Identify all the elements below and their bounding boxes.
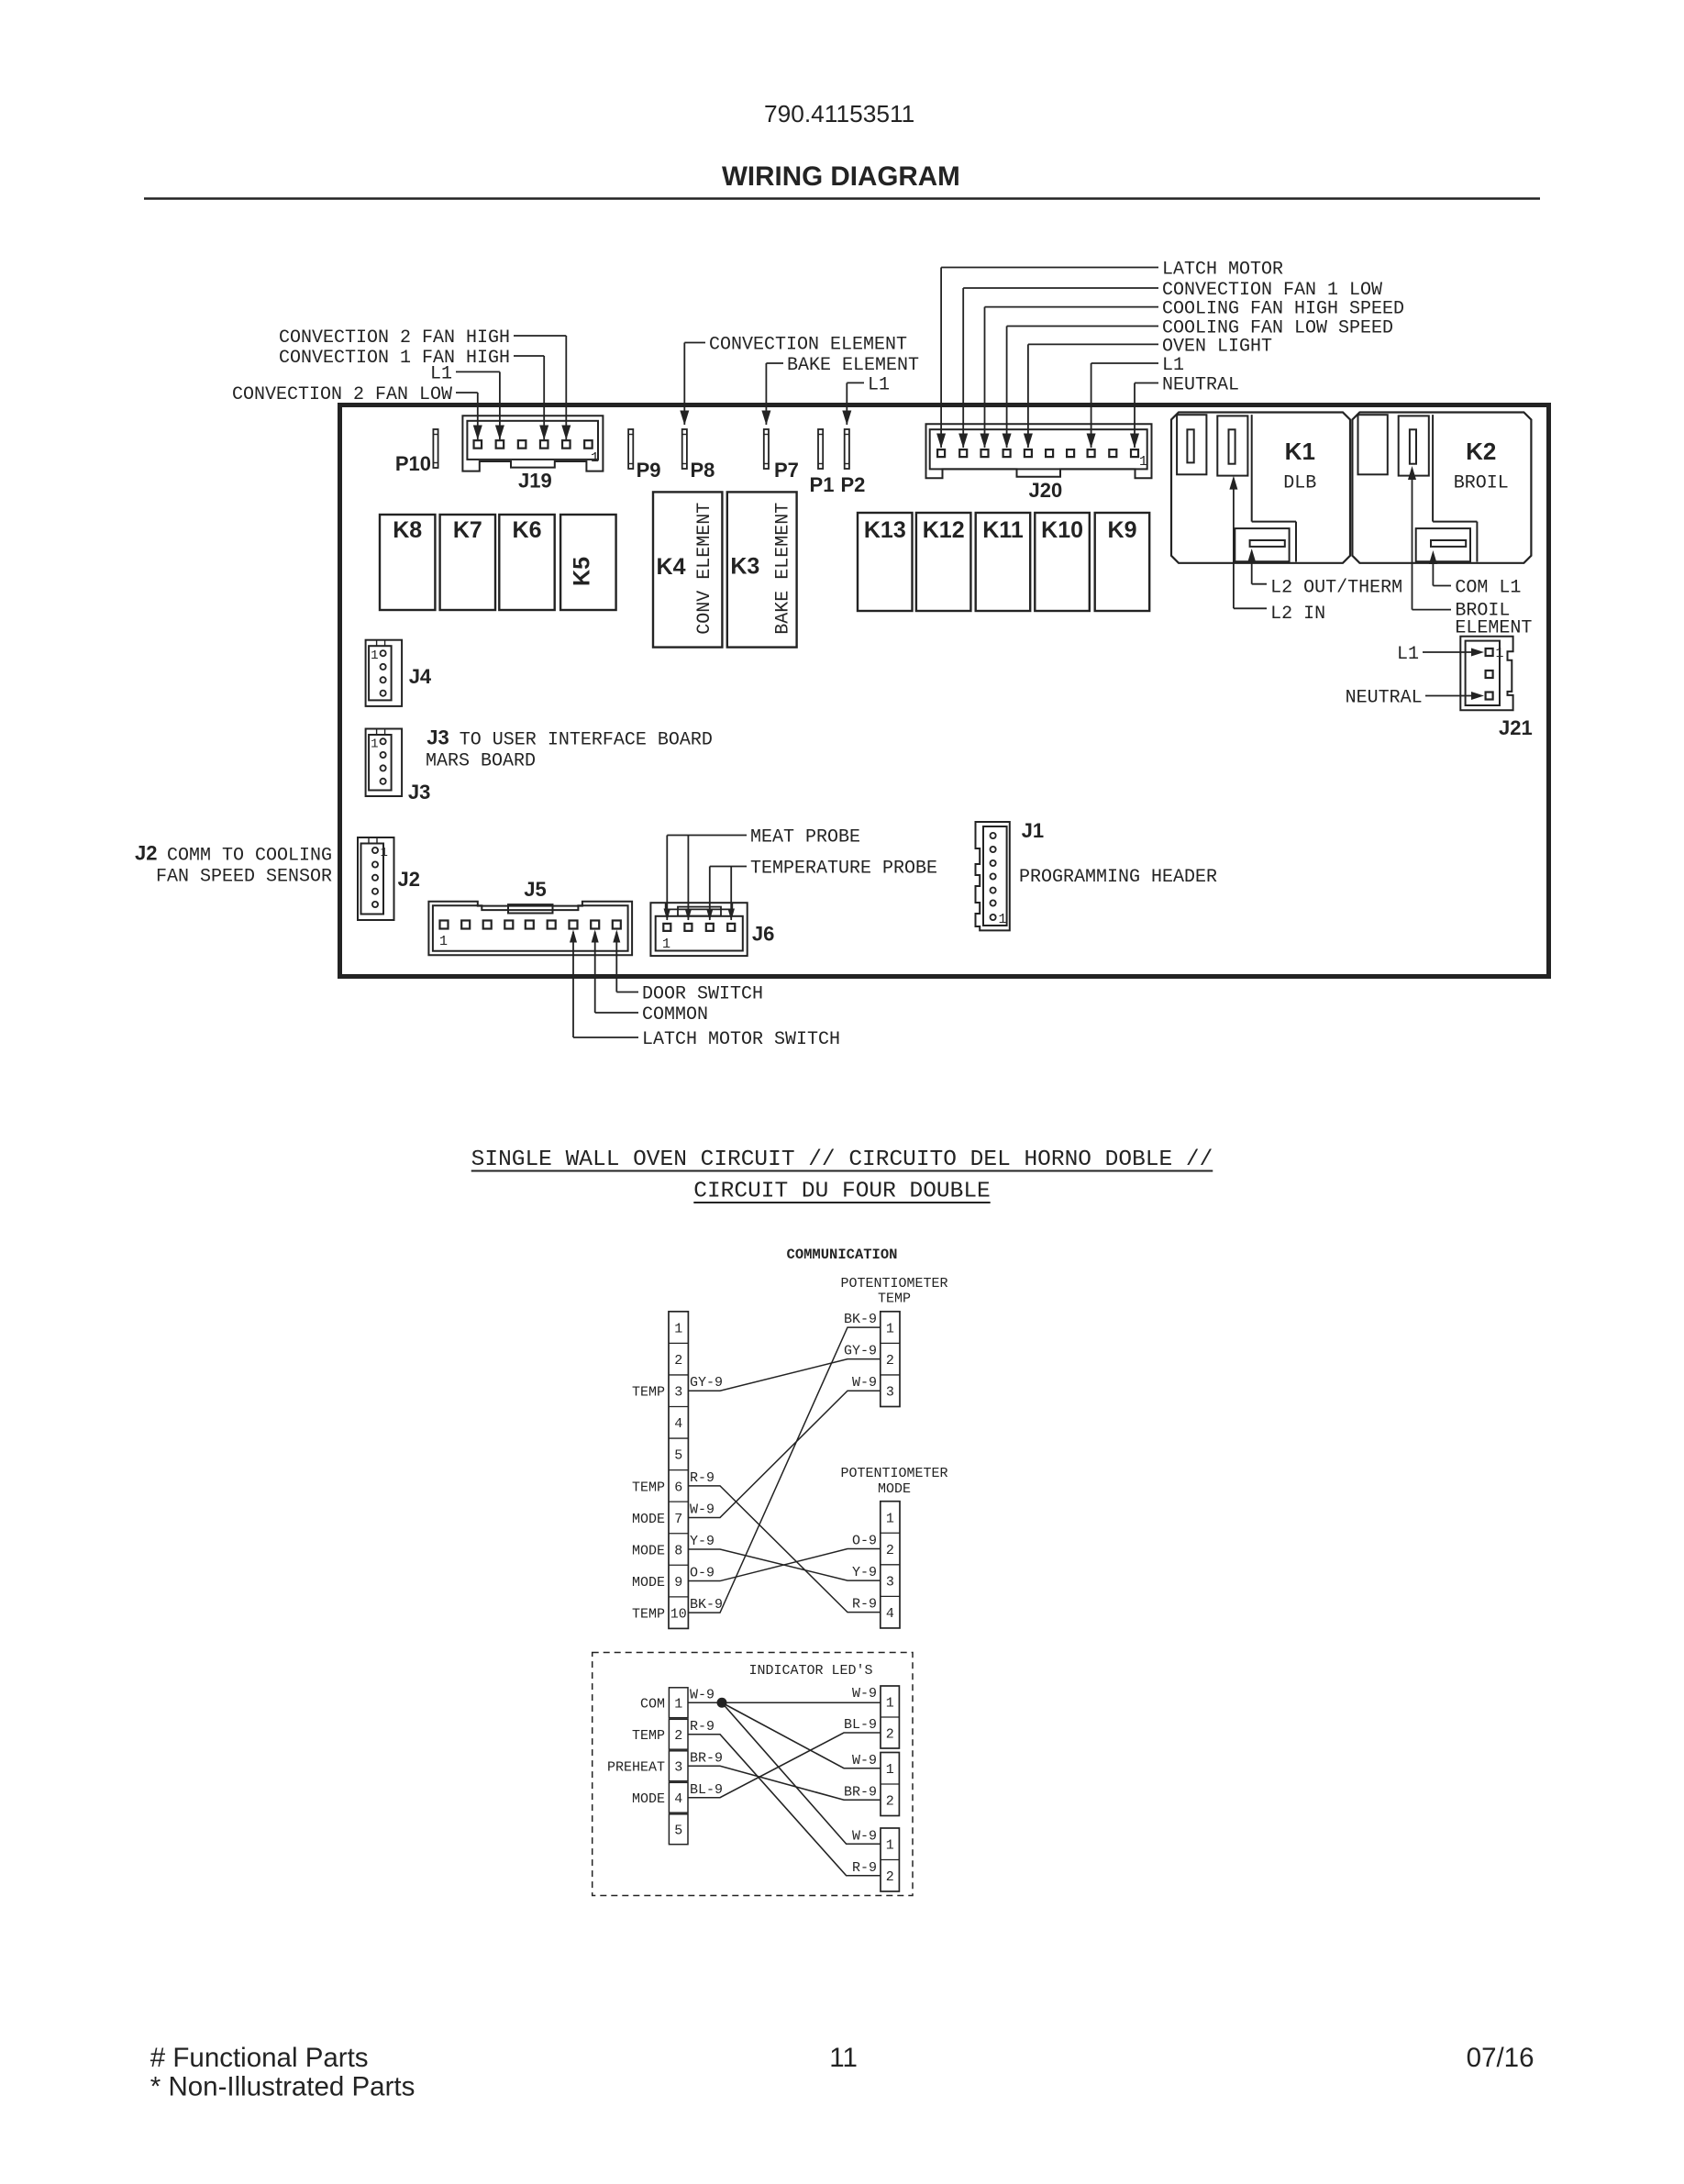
svg-text:K10: K10	[1041, 517, 1083, 543]
svg-text:COOLING FAN HIGH SPEED: COOLING FAN HIGH SPEED	[1162, 299, 1404, 320]
svg-text:1: 1	[591, 450, 599, 466]
svg-text:NEUTRAL: NEUTRAL	[1162, 375, 1239, 396]
svg-text:MODE: MODE	[632, 1543, 665, 1558]
svg-text:TEMP: TEMP	[632, 1607, 665, 1623]
svg-text:L2 OUT/THERM: L2 OUT/THERM	[1270, 578, 1402, 599]
svg-text:BR-9: BR-9	[690, 1750, 723, 1766]
svg-text:R-9: R-9	[852, 1597, 877, 1613]
svg-text:9: 9	[674, 1575, 682, 1591]
svg-text:K12: K12	[923, 517, 965, 543]
svg-text:O-9: O-9	[690, 1566, 715, 1581]
svg-text:4: 4	[674, 1416, 682, 1432]
svg-text:8: 8	[674, 1543, 682, 1558]
svg-text:R-9: R-9	[690, 1470, 715, 1486]
svg-text:J4: J4	[409, 665, 432, 688]
svg-text:L1: L1	[1162, 355, 1184, 376]
svg-text:K7: K7	[453, 517, 482, 543]
svg-text:2: 2	[674, 1728, 682, 1744]
svg-text:5: 5	[674, 1448, 682, 1464]
svg-text:BK-9: BK-9	[690, 1597, 723, 1613]
svg-text:Y-9: Y-9	[852, 1565, 877, 1580]
svg-text:DLB: DLB	[1283, 472, 1316, 493]
svg-text:K9: K9	[1108, 517, 1137, 543]
svg-text:COMM TO COOLING: COMM TO COOLING	[167, 846, 332, 867]
svg-text:J3: J3	[427, 726, 449, 749]
svg-text:CONVECTION ELEMENT: CONVECTION ELEMENT	[709, 335, 907, 356]
svg-text:COM L1: COM L1	[1455, 578, 1521, 599]
svg-text:BL-9: BL-9	[844, 1717, 877, 1733]
svg-text:J1: J1	[1022, 819, 1044, 842]
svg-text:MODE: MODE	[632, 1575, 665, 1591]
svg-text:R-9: R-9	[852, 1860, 877, 1876]
svg-text:2: 2	[886, 1794, 894, 1810]
svg-text:1: 1	[886, 1838, 894, 1854]
svg-text:1: 1	[1139, 454, 1147, 470]
svg-text:P9: P9	[637, 459, 661, 482]
svg-text:J19: J19	[518, 470, 552, 493]
svg-text:5: 5	[674, 1824, 682, 1839]
svg-text:GY-9: GY-9	[844, 1344, 877, 1359]
svg-text:1: 1	[674, 1697, 682, 1713]
svg-text:O-9: O-9	[852, 1534, 877, 1549]
svg-text:J6: J6	[752, 922, 774, 945]
svg-text:L1: L1	[1397, 644, 1419, 665]
svg-text:2: 2	[886, 1726, 894, 1742]
svg-text:COMMUNICATION: COMMUNICATION	[787, 1247, 898, 1263]
svg-text:DOOR SWITCH: DOOR SWITCH	[642, 984, 763, 1005]
svg-text:K4: K4	[657, 554, 686, 580]
svg-text:1: 1	[662, 937, 670, 952]
svg-text:3: 3	[674, 1760, 682, 1776]
svg-text:BL-9: BL-9	[690, 1782, 723, 1798]
svg-text:BR-9: BR-9	[844, 1784, 877, 1800]
svg-text:07/16: 07/16	[1467, 2043, 1534, 2073]
svg-text:790.41153511: 790.41153511	[764, 100, 914, 127]
svg-text:P8: P8	[691, 459, 715, 482]
svg-text:3: 3	[886, 1575, 894, 1591]
svg-text:L2 IN: L2 IN	[1270, 604, 1325, 625]
svg-text:W-9: W-9	[690, 1687, 715, 1702]
svg-text:1: 1	[999, 912, 1007, 927]
svg-text:J2: J2	[135, 842, 157, 865]
svg-text:1: 1	[1496, 646, 1504, 661]
svg-text:L1: L1	[868, 374, 890, 395]
svg-text:3: 3	[886, 1385, 894, 1401]
svg-text:W-9: W-9	[852, 1828, 877, 1844]
svg-text:MODE: MODE	[632, 1791, 665, 1807]
svg-text:K3: K3	[730, 554, 759, 580]
svg-text:1: 1	[886, 1762, 894, 1778]
svg-text:NEUTRAL: NEUTRAL	[1346, 688, 1423, 709]
svg-text:POTENTIOMETER: POTENTIOMETER	[840, 1466, 947, 1481]
svg-text:TEMP: TEMP	[632, 1385, 665, 1401]
svg-text:J20: J20	[1029, 479, 1063, 502]
svg-text:1: 1	[674, 1321, 682, 1336]
svg-text:WIRING DIAGRAM: WIRING DIAGRAM	[722, 161, 960, 192]
svg-text:CIRCUIT DU FOUR DOUBLE: CIRCUIT DU FOUR DOUBLE	[693, 1180, 990, 1204]
svg-text:CONV ELEMENT: CONV ELEMENT	[694, 503, 715, 635]
svg-text:BK-9: BK-9	[844, 1312, 877, 1327]
svg-text:TEMP: TEMP	[632, 1480, 665, 1495]
svg-text:BAKE ELEMENT: BAKE ELEMENT	[773, 503, 794, 635]
svg-text:K13: K13	[864, 517, 906, 543]
svg-text:INDICATOR LED'S: INDICATOR LED'S	[748, 1663, 872, 1679]
svg-text:BROIL: BROIL	[1454, 472, 1509, 493]
svg-text:W-9: W-9	[690, 1502, 715, 1517]
svg-text:CONVECTION 1 FAN HIGH: CONVECTION 1 FAN HIGH	[279, 348, 510, 369]
svg-text:1: 1	[886, 1321, 894, 1336]
svg-text:2: 2	[886, 1353, 894, 1369]
svg-text:J2: J2	[398, 868, 420, 891]
svg-text:SINGLE WALL OVEN CIRCUIT // CI: SINGLE WALL OVEN CIRCUIT // CIRCUITO DEL…	[471, 1147, 1213, 1172]
svg-text:1: 1	[886, 1511, 894, 1526]
svg-text:TEMP: TEMP	[632, 1728, 665, 1744]
svg-text:J21: J21	[1499, 716, 1533, 739]
svg-text:POTENTIOMETER: POTENTIOMETER	[840, 1276, 947, 1292]
svg-text:COM: COM	[640, 1697, 665, 1713]
svg-text:P7: P7	[774, 459, 799, 482]
svg-text:2: 2	[674, 1353, 682, 1369]
svg-text:K6: K6	[513, 517, 542, 543]
svg-text:P10: P10	[395, 452, 431, 475]
svg-text:K1: K1	[1285, 438, 1315, 465]
svg-text:11: 11	[829, 2043, 858, 2073]
svg-text:2: 2	[886, 1869, 894, 1885]
svg-text:10: 10	[670, 1607, 687, 1623]
svg-text:7: 7	[674, 1512, 682, 1527]
svg-text:1: 1	[439, 934, 448, 949]
svg-text:P2: P2	[840, 473, 865, 496]
svg-text:Y-9: Y-9	[690, 1534, 715, 1549]
svg-text:MODE: MODE	[878, 1481, 911, 1497]
svg-text:K8: K8	[393, 517, 422, 543]
svg-text:P1: P1	[810, 473, 835, 496]
svg-text:# Functional Parts: # Functional Parts	[150, 2043, 369, 2073]
svg-text:4: 4	[674, 1791, 682, 1807]
svg-text:4: 4	[886, 1606, 894, 1622]
svg-text:W-9: W-9	[852, 1686, 877, 1702]
svg-text:MEAT PROBE: MEAT PROBE	[750, 827, 860, 848]
svg-text:MARS BOARD: MARS BOARD	[426, 751, 536, 772]
svg-text:1: 1	[886, 1695, 894, 1711]
svg-text:COMMON: COMMON	[642, 1004, 708, 1025]
svg-text:BAKE ELEMENT: BAKE ELEMENT	[787, 355, 919, 376]
svg-text:TEMP: TEMP	[878, 1292, 911, 1307]
svg-text:LATCH MOTOR: LATCH MOTOR	[1162, 260, 1283, 281]
svg-text:6: 6	[674, 1480, 682, 1495]
svg-text:TEMPERATURE PROBE: TEMPERATURE PROBE	[750, 859, 937, 880]
svg-text:L1: L1	[430, 363, 452, 384]
svg-text:1: 1	[381, 846, 388, 860]
svg-text:PREHEAT: PREHEAT	[607, 1760, 665, 1776]
svg-text:1: 1	[371, 649, 378, 663]
svg-text:OVEN LIGHT: OVEN LIGHT	[1162, 336, 1272, 357]
svg-text:J5: J5	[524, 878, 546, 901]
svg-text:W-9: W-9	[852, 1753, 877, 1768]
svg-text:LATCH MOTOR SWITCH: LATCH MOTOR SWITCH	[642, 1029, 840, 1050]
svg-text:CONVECTION FAN 1 LOW: CONVECTION FAN 1 LOW	[1162, 280, 1382, 301]
svg-text:GY-9: GY-9	[690, 1375, 723, 1391]
svg-text:PROGRAMMING HEADER: PROGRAMMING HEADER	[1019, 867, 1217, 888]
svg-text:* Non-Illustrated Parts: * Non-Illustrated Parts	[150, 2072, 415, 2102]
svg-text:TO USER INTERFACE BOARD: TO USER INTERFACE BOARD	[460, 730, 713, 751]
svg-text:3: 3	[674, 1385, 682, 1401]
svg-text:J3: J3	[408, 781, 430, 804]
svg-text:FAN SPEED SENSOR: FAN SPEED SENSOR	[156, 867, 332, 888]
svg-text:R-9: R-9	[690, 1719, 715, 1735]
svg-text:W-9: W-9	[852, 1375, 877, 1391]
svg-text:K5: K5	[570, 557, 595, 586]
svg-text:K2: K2	[1466, 438, 1496, 465]
svg-text:2: 2	[886, 1543, 894, 1558]
svg-text:K11: K11	[982, 517, 1024, 543]
svg-text:1: 1	[371, 737, 378, 751]
svg-text:CONVECTION 2 FAN HIGH: CONVECTION 2 FAN HIGH	[279, 327, 510, 349]
svg-text:CONVECTION 2 FAN LOW: CONVECTION 2 FAN LOW	[232, 384, 452, 405]
svg-text:MODE: MODE	[632, 1512, 665, 1527]
